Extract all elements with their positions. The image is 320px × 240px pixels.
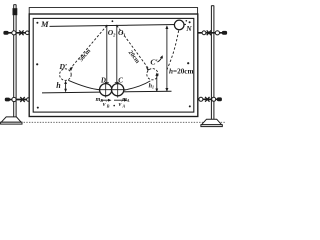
dashed ball C' (147, 69, 158, 80)
left stand rod (14, 5, 16, 118)
mid screw left edge (36, 63, 38, 65)
arrow h1 (under C') (155, 73, 158, 92)
label C (118, 77, 123, 85)
corner screw bottom-left (37, 107, 39, 109)
label D (100, 77, 106, 85)
string O2-D (105, 25, 109, 84)
label O1 (118, 28, 126, 37)
svg-text:C′: C′ (150, 58, 157, 67)
right stand base (201, 119, 222, 126)
label D' (58, 62, 67, 71)
svg-text:h=20cm: h=20cm (169, 67, 193, 75)
label h=20cm (169, 67, 193, 75)
label vB' (103, 100, 110, 108)
ground line (42, 91, 172, 93)
svg-text:D: D (100, 77, 106, 85)
corner screw top-right (189, 21, 191, 23)
velocity arrow vA (114, 99, 128, 102)
mid screw right edge (187, 62, 189, 64)
arrow h (left) (64, 81, 67, 93)
label 20cm (127, 49, 142, 65)
corner screw bottom-right (189, 105, 191, 107)
ball D (98, 82, 114, 98)
tall measure arrow h=20cm (165, 25, 168, 92)
dashed pendulum line 50cm (70, 26, 107, 71)
label N (185, 24, 192, 33)
board outer rectangle (29, 14, 198, 117)
right upper clamp (198, 30, 227, 35)
dashed ball D' (60, 69, 72, 81)
floor line (2, 121, 226, 123)
right stand rod (211, 6, 214, 120)
left stand base (1, 117, 22, 124)
right lower clamp (195, 97, 222, 102)
label h (56, 81, 61, 90)
label mB (96, 97, 104, 103)
left rod top collar (13, 8, 18, 15)
velocity arrow vB (102, 99, 112, 102)
label O2 (108, 28, 116, 37)
support bar (50, 24, 187, 26)
dashed swing arc C' to N (167, 30, 179, 70)
ball N string tick (186, 20, 188, 22)
right track curve (124, 81, 151, 90)
svg-text:h: h (56, 81, 61, 90)
label 50cm (78, 47, 93, 63)
svg-text:M: M (40, 19, 49, 29)
svg-text:C: C (118, 77, 123, 85)
ball N (174, 20, 184, 30)
label mA (122, 97, 130, 103)
mid screw bottom edge (113, 105, 115, 107)
svg-text:D′: D′ (58, 62, 67, 71)
label vA' (119, 100, 126, 108)
dashed pendulum line 20cm (117, 25, 149, 71)
board inner rectangle (33, 18, 194, 112)
mid screw top edge (112, 20, 114, 22)
label h1 (149, 83, 154, 90)
label C' (150, 58, 157, 67)
corner screw top-left (36, 22, 38, 24)
svg-text:N: N (185, 24, 192, 33)
ball C (110, 82, 126, 98)
string O1-C (115, 25, 119, 84)
board top back edge (29, 8, 197, 14)
swing direction arc arrow (157, 55, 163, 62)
left track curve (68, 80, 100, 89)
left lower clamp (5, 97, 31, 102)
left upper clamp (3, 30, 29, 35)
label M (40, 19, 49, 29)
svg-text:h1: h1 (149, 83, 154, 90)
